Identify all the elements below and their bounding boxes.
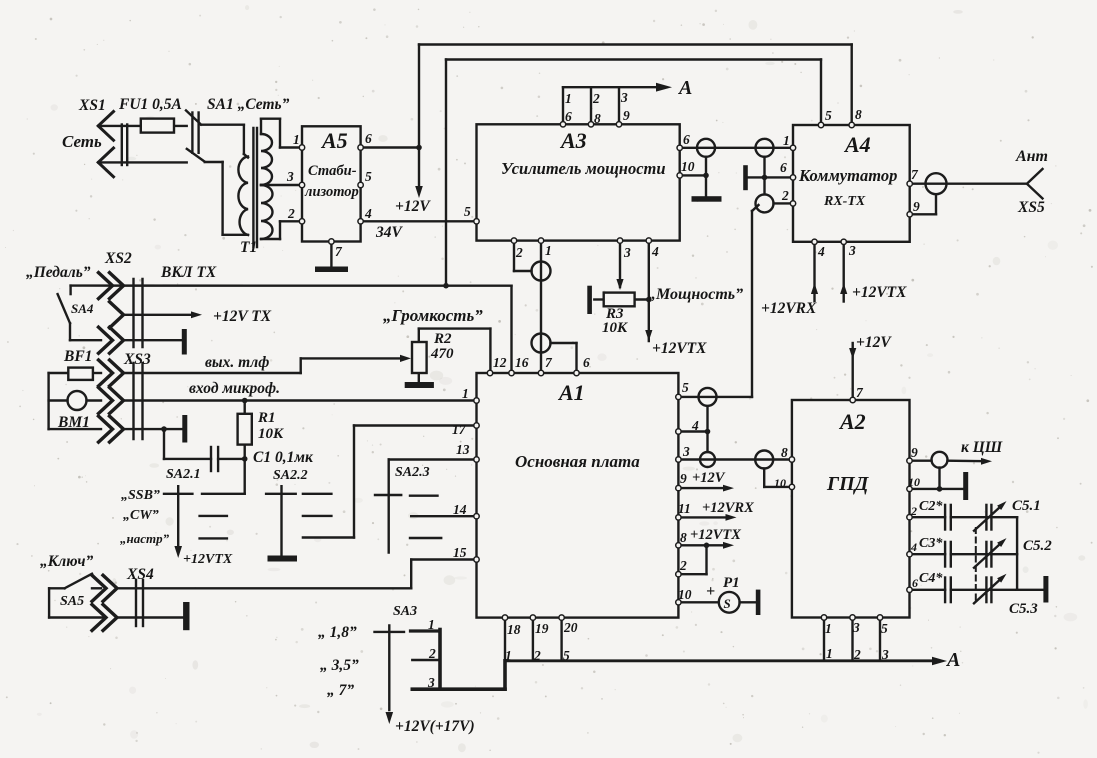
svg-text:1: 1	[293, 132, 300, 147]
svg-text:6: 6	[912, 576, 918, 590]
svg-text:1: 1	[825, 621, 832, 636]
svg-text:„ 1,8”: „ 1,8”	[318, 624, 357, 641]
svg-text:XS2: XS2	[104, 250, 132, 267]
svg-text:2: 2	[287, 206, 295, 221]
svg-text:Усилитель мощности: Усилитель мощности	[501, 159, 666, 178]
svg-text:3: 3	[427, 675, 435, 690]
svg-text:1: 1	[505, 648, 512, 663]
svg-text:10: 10	[681, 159, 695, 174]
svg-text:14: 14	[453, 502, 467, 517]
svg-text:к ЦШ: к ЦШ	[961, 439, 1003, 456]
svg-text:2: 2	[781, 188, 789, 203]
svg-text:+: +	[706, 583, 715, 600]
svg-text:9: 9	[913, 199, 920, 214]
svg-text:10: 10	[774, 476, 786, 490]
svg-text:2: 2	[853, 647, 861, 662]
svg-text:С3*: С3*	[919, 536, 943, 551]
svg-text:А2: А2	[838, 409, 866, 434]
svg-text:R1: R1	[257, 410, 276, 426]
svg-text:„SSB”: „SSB”	[121, 488, 160, 503]
svg-text:3: 3	[852, 620, 860, 635]
svg-text:XS5: XS5	[1017, 199, 1045, 216]
svg-text:SA2.3: SA2.3	[395, 465, 430, 480]
svg-text:5: 5	[365, 169, 372, 184]
svg-text:10: 10	[908, 475, 920, 489]
svg-text:1: 1	[826, 646, 833, 661]
svg-text:+12V: +12V	[856, 334, 892, 351]
svg-text:Т1: Т1	[240, 239, 257, 256]
svg-text:10К: 10К	[258, 426, 284, 442]
svg-text:1: 1	[565, 91, 572, 106]
svg-text:Сеть: Сеть	[62, 132, 102, 151]
svg-text:вых. тлф: вых. тлф	[205, 354, 269, 371]
svg-text:4: 4	[691, 418, 699, 433]
svg-text:2: 2	[679, 558, 687, 573]
svg-text:Коммутатор: Коммутатор	[798, 166, 897, 185]
svg-text:„Мощность”: „Мощность”	[648, 286, 743, 303]
svg-text:19: 19	[535, 621, 549, 636]
svg-text:S: S	[724, 596, 731, 611]
svg-text:+12VТХ: +12VТХ	[852, 284, 907, 301]
svg-text:+12VТХ: +12VТХ	[690, 527, 741, 543]
svg-text:А1: А1	[557, 380, 585, 405]
svg-text:470: 470	[430, 346, 454, 362]
svg-text:6: 6	[583, 355, 590, 370]
svg-text:6: 6	[565, 109, 572, 124]
svg-text:34V: 34V	[375, 224, 404, 241]
svg-text:SA5: SA5	[60, 594, 84, 609]
svg-text:„ 3,5”: „ 3,5”	[320, 657, 359, 674]
svg-text:XS1: XS1	[78, 97, 106, 114]
svg-text:RX-ТХ: RX-ТХ	[823, 194, 866, 209]
svg-text:SA2.2: SA2.2	[273, 468, 308, 483]
svg-text:12: 12	[493, 355, 507, 370]
svg-text:А: А	[945, 649, 960, 671]
svg-text:10: 10	[678, 587, 692, 602]
svg-text:FU1 0,5A: FU1 0,5A	[118, 96, 182, 113]
svg-text:2: 2	[910, 504, 917, 518]
svg-text:С2*: С2*	[919, 499, 943, 514]
svg-text:13: 13	[456, 442, 470, 457]
svg-text:10К: 10К	[602, 320, 628, 336]
svg-text:С1 0,1мк: С1 0,1мк	[253, 449, 314, 466]
svg-text:6: 6	[365, 131, 372, 146]
svg-text:4: 4	[817, 244, 825, 259]
svg-text:SA4: SA4	[71, 301, 94, 316]
svg-text:вход микроф.: вход микроф.	[189, 380, 280, 397]
svg-text:2: 2	[533, 648, 541, 663]
svg-text:С5.1: С5.1	[1012, 498, 1041, 514]
svg-text:Стаби-: Стаби-	[308, 163, 357, 179]
svg-text:3: 3	[623, 245, 631, 260]
svg-text:18: 18	[507, 622, 521, 637]
svg-text:3: 3	[682, 444, 690, 459]
svg-text:SA1 „Сеть”: SA1 „Сеть”	[207, 96, 290, 113]
svg-text:XS3: XS3	[123, 351, 151, 368]
svg-text:20: 20	[563, 620, 578, 635]
svg-text:А: А	[677, 77, 692, 99]
svg-text:Р1: Р1	[723, 575, 740, 591]
svg-text:+12VТХ: +12VТХ	[183, 552, 233, 567]
svg-text:11: 11	[678, 501, 691, 516]
svg-text:9: 9	[680, 471, 687, 486]
svg-text:15: 15	[453, 545, 467, 560]
svg-text:3: 3	[881, 647, 889, 662]
svg-text:5: 5	[464, 204, 471, 219]
svg-text:+12V: +12V	[395, 198, 431, 215]
svg-text:С5.3: С5.3	[1009, 601, 1038, 617]
svg-text:+12V ТХ: +12V ТХ	[213, 308, 272, 325]
svg-text:9: 9	[623, 108, 630, 123]
svg-text:16: 16	[515, 355, 529, 370]
svg-text:3: 3	[286, 169, 294, 184]
svg-text:BF1: BF1	[63, 348, 92, 365]
svg-text:XS4: XS4	[126, 566, 154, 583]
svg-text:„Педаль”: „Педаль”	[26, 264, 91, 281]
svg-text:1: 1	[428, 617, 435, 632]
svg-text:8: 8	[781, 445, 788, 460]
svg-text:9: 9	[911, 445, 918, 460]
svg-text:4: 4	[651, 244, 659, 259]
svg-text:3: 3	[848, 243, 856, 258]
svg-text:С5.2: С5.2	[1023, 538, 1052, 554]
svg-text:2: 2	[515, 245, 523, 260]
svg-text:лизотор: лизотор	[304, 184, 359, 200]
svg-text:4: 4	[910, 540, 917, 554]
svg-text:1: 1	[783, 133, 790, 148]
svg-text:+12V: +12V	[692, 470, 726, 486]
svg-text:+12V(+17V): +12V(+17V)	[395, 718, 475, 735]
svg-text:„настр”: „настр”	[120, 531, 170, 546]
svg-text:2: 2	[592, 91, 600, 106]
svg-text:С4*: С4*	[919, 571, 943, 586]
svg-text:2: 2	[428, 646, 436, 661]
svg-text:8: 8	[594, 111, 601, 126]
svg-text:ВКЛ ТХ: ВКЛ ТХ	[160, 264, 217, 281]
svg-text:„ 7”: „ 7”	[327, 682, 354, 699]
svg-text:ВМ1: ВМ1	[57, 414, 90, 431]
svg-text:5: 5	[825, 108, 832, 123]
svg-text:+12VRX: +12VRX	[761, 300, 817, 317]
svg-text:Основная плата: Основная плата	[515, 452, 640, 471]
svg-text:+12VRX: +12VRX	[702, 500, 754, 516]
svg-text:SA3: SA3	[393, 604, 417, 619]
svg-text:А3: А3	[559, 128, 587, 153]
svg-text:4: 4	[364, 206, 372, 221]
svg-text:3: 3	[620, 90, 628, 105]
svg-text:5: 5	[881, 621, 888, 636]
svg-text:„Громкость”: „Громкость”	[383, 306, 483, 325]
svg-text:8: 8	[855, 107, 862, 122]
svg-text:6: 6	[780, 160, 787, 175]
svg-text:5: 5	[563, 648, 570, 663]
svg-text:„Ключ”: „Ключ”	[40, 553, 93, 570]
svg-text:А5: А5	[320, 128, 348, 153]
svg-text:SA2.1: SA2.1	[166, 467, 201, 482]
svg-text:1: 1	[462, 386, 469, 401]
svg-text:R2: R2	[433, 331, 452, 347]
svg-text:1: 1	[545, 243, 552, 258]
svg-text:А4: А4	[843, 132, 871, 157]
svg-text:6: 6	[683, 132, 690, 147]
svg-text:5: 5	[682, 380, 689, 395]
svg-text:8: 8	[680, 530, 687, 545]
svg-text:+12VТХ: +12VТХ	[652, 340, 707, 357]
svg-text:17: 17	[452, 422, 467, 437]
svg-text:ГПД: ГПД	[826, 473, 870, 495]
svg-text:„CW”: „CW”	[123, 508, 159, 523]
svg-text:Ант: Ант	[1015, 148, 1048, 165]
